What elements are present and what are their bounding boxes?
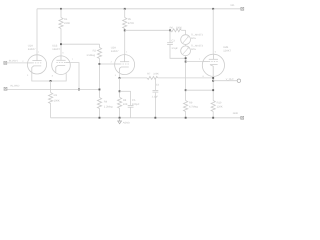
svg-text:AGND: AGND bbox=[123, 122, 130, 125]
svg-text:V_OUT: V_OUT bbox=[226, 78, 235, 81]
flag IN_INV1 port bbox=[4, 61, 7, 64]
wire bbox=[119, 78, 121, 97]
svg-text:R3: R3 bbox=[54, 94, 58, 97]
capacitor C4 bbox=[154, 78, 156, 90]
wire bbox=[125, 29, 170, 31]
svg-text:12AX7: 12AX7 bbox=[223, 50, 231, 53]
wire bbox=[185, 56, 187, 101]
capacitor C3 plates bbox=[167, 43, 173, 45]
flag VPLATE port bbox=[241, 7, 244, 10]
ground bbox=[118, 118, 122, 124]
resistor R6 bbox=[171, 29, 182, 32]
wire bbox=[213, 80, 237, 82]
svg-text:R5: R5 bbox=[128, 18, 132, 21]
wire bbox=[120, 77, 147, 79]
wire bbox=[36, 9, 38, 55]
resistor R9 bbox=[184, 101, 188, 112]
svg-text:IN_INV2: IN_INV2 bbox=[10, 84, 20, 87]
node junction bbox=[154, 117, 156, 119]
node junction bbox=[185, 89, 187, 91]
svg-text:R6: R6 bbox=[170, 26, 174, 29]
node junction bbox=[60, 43, 62, 45]
node junction bbox=[212, 80, 214, 82]
resistor R10 bbox=[211, 101, 215, 112]
svg-text:R2: R2 bbox=[93, 49, 97, 52]
wire bbox=[124, 29, 126, 55]
node junction bbox=[60, 8, 62, 10]
node junction bbox=[169, 29, 171, 31]
node junction bbox=[99, 63, 101, 65]
svg-text:470R: 470R bbox=[128, 22, 134, 25]
svg-text:10K: 10K bbox=[123, 103, 128, 106]
wire bbox=[212, 9, 214, 54]
wire bbox=[124, 9, 126, 18]
node junction bbox=[119, 117, 121, 119]
svg-text:100K: 100K bbox=[54, 100, 60, 103]
node junction bbox=[185, 117, 187, 119]
resistor R7 bbox=[147, 76, 158, 79]
node junction bbox=[185, 61, 187, 63]
svg-text:100K: 100K bbox=[176, 26, 182, 29]
resistor R8 bbox=[118, 97, 122, 108]
wire bbox=[130, 91, 132, 105]
svg-text:C3: C3 bbox=[171, 40, 175, 43]
node junction bbox=[212, 77, 214, 79]
wire bbox=[185, 45, 187, 46]
wire bbox=[51, 117, 241, 119]
node junction bbox=[124, 29, 126, 31]
wire grid U2A bbox=[100, 63, 115, 65]
wire bbox=[99, 59, 101, 98]
wire bbox=[185, 112, 187, 118]
wire bbox=[158, 77, 213, 79]
capacitor C3 bbox=[169, 30, 171, 42]
potentiometer TL_MAST1 bbox=[181, 35, 191, 45]
svg-text:220K: 220K bbox=[64, 22, 70, 25]
wire bbox=[60, 9, 62, 18]
node junction bbox=[212, 8, 214, 10]
flag GND2 port bbox=[241, 116, 244, 119]
flag V_OUT port bbox=[237, 79, 240, 82]
node junction bbox=[78, 89, 80, 91]
wire bbox=[185, 30, 187, 34]
resistor R5 bbox=[123, 18, 127, 29]
capacitor C5 plates bbox=[128, 106, 134, 108]
svg-text:2.2µF: 2.2µF bbox=[152, 95, 159, 98]
wire bbox=[37, 8, 241, 10]
svg-text:12AX7: 12AX7 bbox=[111, 50, 119, 53]
triode U2B bbox=[202, 54, 224, 76]
resistor R2 bbox=[97, 48, 101, 59]
svg-text:VPL: VPL bbox=[230, 4, 235, 7]
node junction bbox=[212, 117, 214, 119]
wire bbox=[70, 63, 79, 90]
svg-text:GND: GND bbox=[233, 112, 239, 115]
wire bbox=[32, 73, 66, 81]
triode U1B bbox=[52, 56, 71, 75]
node junction bbox=[119, 90, 121, 92]
wire bbox=[50, 104, 52, 118]
triode U1A bbox=[27, 55, 46, 74]
node junction bbox=[119, 77, 121, 79]
svg-text:12AX7: 12AX7 bbox=[28, 48, 36, 51]
triode U2A bbox=[115, 55, 135, 75]
svg-text:4.7Meg: 4.7Meg bbox=[189, 106, 198, 109]
wire bbox=[99, 44, 101, 47]
wire bbox=[7, 89, 100, 91]
svg-text:220K: 220K bbox=[153, 72, 159, 75]
resistor R4 bbox=[97, 98, 101, 109]
svg-text:R9: R9 bbox=[189, 101, 193, 104]
wire bbox=[61, 43, 100, 45]
wire bbox=[181, 29, 185, 31]
svg-text:120K: 120K bbox=[217, 106, 223, 109]
svg-text:1.5Meg: 1.5Meg bbox=[86, 54, 95, 57]
node junction bbox=[99, 117, 101, 119]
node junction bbox=[185, 57, 187, 59]
node junction bbox=[50, 80, 52, 82]
wire bbox=[212, 112, 214, 118]
svg-text:100µF: 100µF bbox=[132, 103, 140, 106]
wire bbox=[130, 108, 132, 118]
svg-text:IN_INV1: IN_INV1 bbox=[9, 59, 19, 62]
svg-text:C5: C5 bbox=[132, 99, 136, 102]
node junction bbox=[99, 89, 101, 91]
wire grid U2B bbox=[186, 61, 203, 63]
svg-text:R4: R4 bbox=[104, 101, 108, 104]
wire bbox=[154, 93, 156, 118]
wire bbox=[7, 62, 28, 64]
resistor R1 bbox=[59, 18, 63, 29]
wire bbox=[119, 108, 121, 118]
capacitor C5 bbox=[120, 90, 131, 92]
svg-text:12AX7: 12AX7 bbox=[52, 48, 60, 51]
capacitor C4 plates bbox=[153, 90, 159, 92]
wire bbox=[99, 109, 101, 118]
wire bbox=[119, 74, 121, 78]
svg-text:R10: R10 bbox=[217, 101, 222, 104]
potentiometer TL_MAST2 bbox=[181, 46, 191, 56]
svg-text:R8: R8 bbox=[123, 99, 127, 102]
wire bbox=[50, 81, 52, 93]
wire bbox=[186, 89, 214, 91]
svg-text:1.2Meg: 1.2Meg bbox=[104, 106, 113, 109]
node junction bbox=[124, 8, 126, 10]
svg-text:R1: R1 bbox=[64, 18, 68, 21]
flag IN_INV2 port bbox=[4, 87, 7, 90]
wire bbox=[212, 76, 214, 101]
wire bbox=[170, 45, 186, 58]
svg-text:1.5µF: 1.5µF bbox=[171, 47, 178, 50]
node junction bbox=[212, 89, 214, 91]
wire bbox=[60, 29, 62, 56]
resistor R3 bbox=[49, 93, 53, 104]
